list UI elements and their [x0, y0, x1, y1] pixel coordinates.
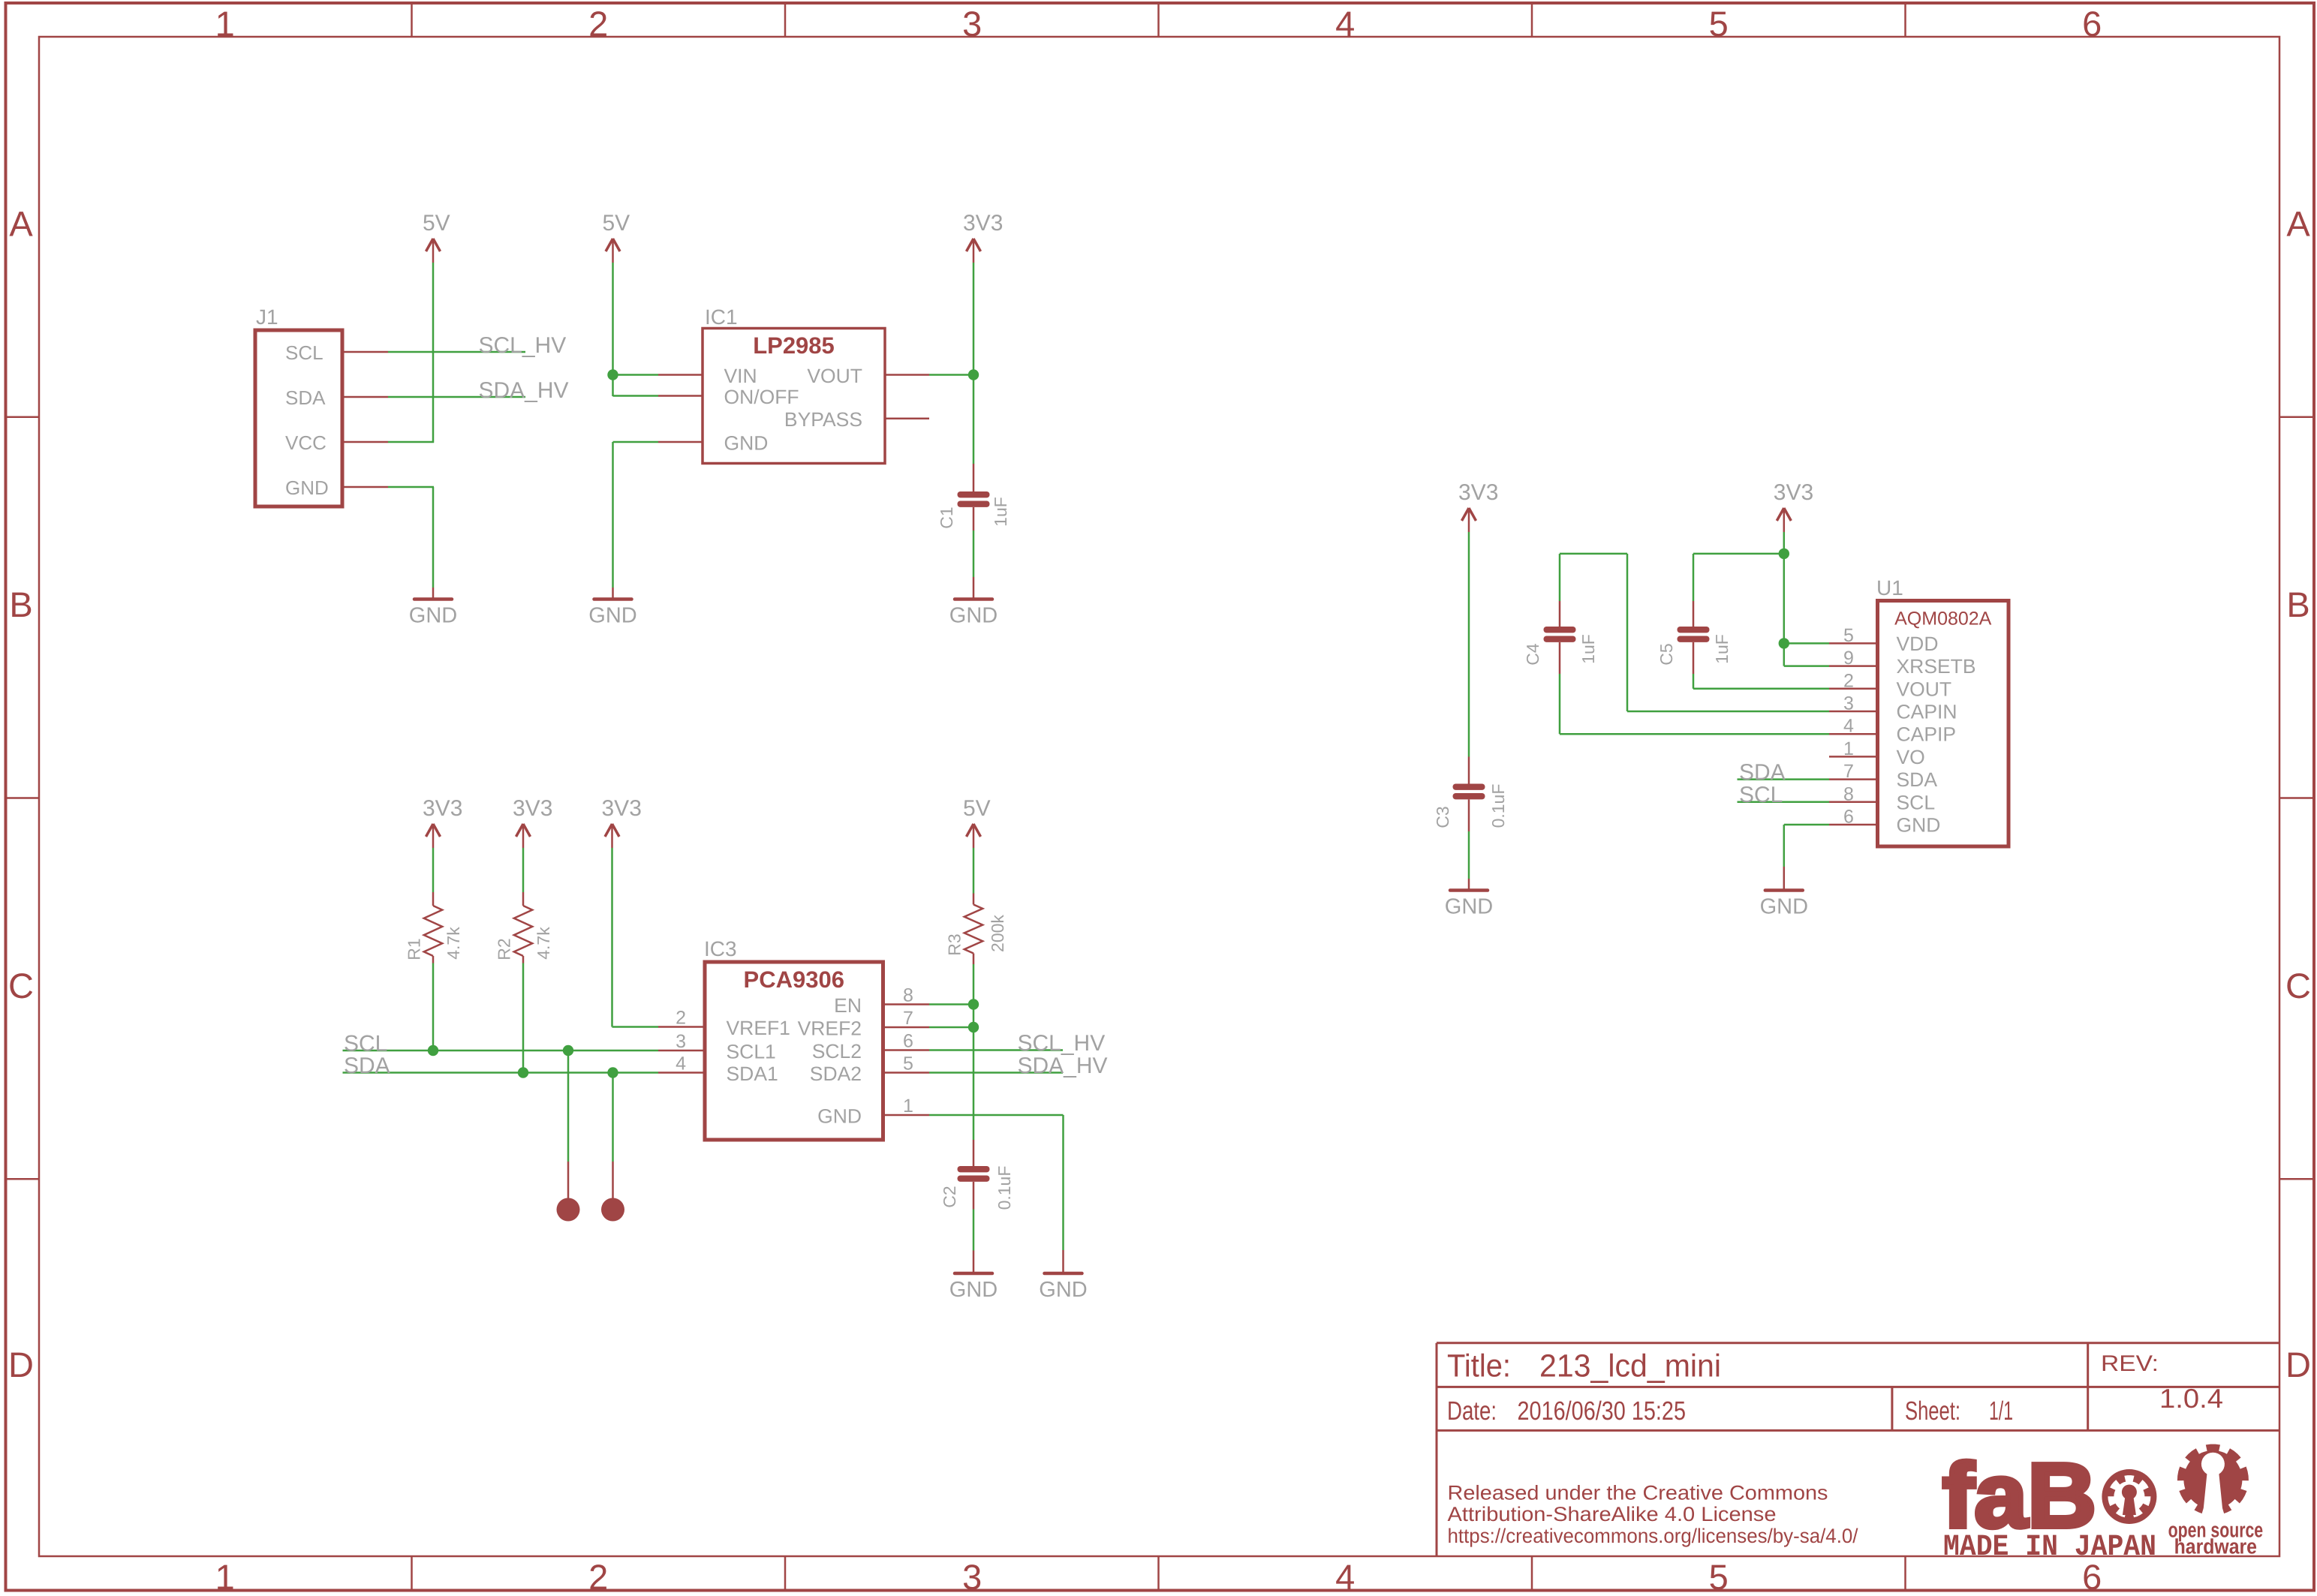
svg-text:GND: GND: [949, 604, 998, 628]
svg-text:3V3: 3V3: [963, 211, 1003, 236]
svg-text:hardware: hardware: [2174, 1535, 2257, 1558]
svg-text:U1: U1: [1876, 576, 1903, 600]
svg-text:4: 4: [1843, 716, 1854, 737]
svg-text:GND: GND: [285, 476, 329, 499]
svg-text:3: 3: [962, 4, 982, 44]
svg-text:C: C: [8, 966, 34, 1005]
svg-text:3: 3: [676, 1031, 686, 1052]
svg-text:C2: C2: [940, 1186, 959, 1207]
svg-text:Released under the Creative Co: Released under the Creative Commons: [1448, 1482, 1828, 1504]
svg-text:3: 3: [1843, 693, 1854, 714]
svg-text:SDA: SDA: [1739, 760, 1786, 785]
svg-text:VOUT: VOUT: [807, 365, 862, 387]
svg-text:SCL: SCL: [285, 341, 323, 364]
svg-text:XRSETB: XRSETB: [1897, 655, 1976, 678]
svg-text:5: 5: [903, 1053, 913, 1075]
svg-text:PCA9306: PCA9306: [744, 966, 844, 993]
svg-text:SCL2: SCL2: [812, 1040, 862, 1062]
svg-text:Title:: Title:: [1447, 1349, 1511, 1384]
svg-text:REV:: REV:: [2101, 1351, 2159, 1376]
svg-text:D: D: [8, 1345, 34, 1384]
svg-text:R2: R2: [495, 938, 514, 960]
svg-text:SCL_HV: SCL_HV: [479, 333, 567, 358]
svg-text:SCL_HV: SCL_HV: [1018, 1031, 1106, 1056]
svg-text:9: 9: [1843, 648, 1854, 669]
svg-text:200k: 200k: [988, 915, 1007, 952]
svg-text:VO: VO: [1897, 746, 1925, 768]
svg-text:3V3: 3V3: [1458, 480, 1498, 505]
svg-text:6: 6: [903, 1031, 913, 1052]
svg-text:1.0.4: 1.0.4: [2159, 1383, 2223, 1414]
svg-text:3V3: 3V3: [423, 796, 462, 821]
svg-text:B: B: [2286, 585, 2309, 624]
svg-text:3V3: 3V3: [1774, 480, 1813, 505]
svg-text:D: D: [2285, 1345, 2311, 1384]
svg-text:4.7k: 4.7k: [444, 927, 463, 960]
svg-text:Attribution-ShareAlike 4.0 Lic: Attribution-ShareAlike 4.0 License: [1448, 1503, 1777, 1525]
svg-text:0.1uF: 0.1uF: [995, 1166, 1014, 1210]
svg-text:R1: R1: [405, 938, 424, 960]
svg-text:3V3: 3V3: [513, 796, 552, 821]
svg-text:C: C: [2285, 966, 2311, 1005]
svg-text:CAPIN: CAPIN: [1897, 701, 1957, 723]
svg-text:VREF1: VREF1: [727, 1017, 790, 1039]
svg-text:ON/OFF: ON/OFF: [724, 386, 799, 408]
svg-text:8: 8: [1843, 783, 1854, 804]
svg-text:MADE IN JAPAN: MADE IN JAPAN: [1943, 1531, 2156, 1564]
svg-text:7: 7: [903, 1008, 913, 1029]
svg-text:2: 2: [1843, 670, 1854, 691]
svg-text:4.7k: 4.7k: [534, 927, 553, 960]
svg-text:C5: C5: [1657, 643, 1676, 665]
svg-text:AQM0802A: AQM0802A: [1894, 609, 1992, 630]
svg-text:5: 5: [1843, 625, 1854, 646]
svg-text:GND: GND: [409, 604, 457, 628]
svg-text:A: A: [2286, 203, 2310, 243]
svg-text:EN: EN: [834, 994, 862, 1017]
svg-text:SDA: SDA: [1897, 768, 1938, 791]
svg-text:GND: GND: [724, 432, 769, 455]
svg-text:R3: R3: [945, 933, 964, 955]
svg-text:1: 1: [903, 1096, 913, 1117]
svg-text:BYPASS: BYPASS: [784, 408, 862, 431]
svg-text:5: 5: [1709, 1557, 1729, 1596]
svg-text:VCC: VCC: [285, 431, 326, 454]
svg-text:1: 1: [215, 4, 235, 44]
svg-text:1/1: 1/1: [1989, 1396, 2013, 1426]
svg-text:4: 4: [676, 1053, 686, 1075]
svg-text:Sheet:: Sheet:: [1905, 1396, 1960, 1426]
svg-text:6: 6: [2082, 4, 2102, 44]
svg-text:SDA2: SDA2: [810, 1062, 862, 1085]
svg-text:VOUT: VOUT: [1897, 678, 1952, 700]
svg-text:GND: GND: [817, 1105, 862, 1128]
svg-text:2016/06/30 15:25: 2016/06/30 15:25: [1518, 1396, 1687, 1426]
svg-text:VREF2: VREF2: [798, 1017, 862, 1040]
svg-text:J1: J1: [256, 305, 278, 329]
svg-text:GND: GND: [1897, 814, 1941, 837]
svg-text:C3: C3: [1433, 806, 1452, 828]
svg-text:1uF: 1uF: [1578, 634, 1598, 664]
svg-text:VDD: VDD: [1897, 633, 1939, 655]
svg-text:SDA1: SDA1: [727, 1062, 778, 1085]
svg-text:GND: GND: [949, 1278, 998, 1302]
svg-text:VIN: VIN: [724, 365, 757, 387]
svg-text:5V: 5V: [603, 211, 630, 236]
svg-text:6: 6: [1843, 807, 1854, 828]
svg-text:B: B: [9, 585, 32, 624]
svg-text:1: 1: [1843, 738, 1854, 759]
svg-text:2: 2: [588, 4, 608, 44]
svg-text:7: 7: [1843, 761, 1854, 782]
svg-text:213_lcd_mini: 213_lcd_mini: [1539, 1349, 1721, 1384]
svg-text:SDA_HV: SDA_HV: [479, 378, 569, 403]
svg-text:4: 4: [1335, 4, 1355, 44]
svg-text:3: 3: [962, 1557, 982, 1596]
svg-text:1uF: 1uF: [991, 497, 1010, 527]
svg-text:SDA: SDA: [344, 1053, 390, 1078]
svg-text:C1: C1: [937, 506, 956, 528]
svg-text:SCL1: SCL1: [727, 1041, 776, 1063]
svg-text:5: 5: [1709, 4, 1729, 44]
svg-text:1uF: 1uF: [1712, 634, 1732, 664]
svg-text:https://creativecommons.org/li: https://creativecommons.org/licenses/by-…: [1448, 1525, 1858, 1547]
svg-text:A: A: [9, 203, 33, 243]
svg-text:SCL: SCL: [1897, 791, 1936, 813]
svg-text:LP2985: LP2985: [753, 332, 835, 359]
svg-text:SDA_HV: SDA_HV: [1018, 1053, 1108, 1078]
svg-text:4: 4: [1335, 1557, 1355, 1596]
svg-text:1: 1: [215, 1557, 235, 1596]
svg-text:8: 8: [903, 985, 913, 1006]
svg-text:CAPIP: CAPIP: [1897, 723, 1957, 746]
svg-text:SCL: SCL: [1739, 783, 1783, 807]
svg-text:5V: 5V: [963, 796, 991, 821]
svg-text:2: 2: [676, 1008, 686, 1029]
svg-text:GND: GND: [588, 604, 636, 628]
svg-text:SDA: SDA: [285, 386, 326, 409]
svg-text:GND: GND: [1039, 1278, 1087, 1302]
svg-text:5V: 5V: [423, 211, 450, 236]
svg-text:GND: GND: [1445, 895, 1493, 919]
svg-text:0.1uF: 0.1uF: [1488, 784, 1508, 828]
svg-text:3V3: 3V3: [602, 796, 642, 821]
svg-text:Date:: Date:: [1447, 1396, 1497, 1426]
svg-text:IC1: IC1: [705, 305, 738, 329]
svg-text:2: 2: [588, 1557, 608, 1596]
svg-text:SCL: SCL: [344, 1032, 387, 1056]
svg-text:GND: GND: [1760, 895, 1808, 919]
svg-text:C4: C4: [1523, 643, 1542, 666]
svg-text:IC3: IC3: [704, 937, 737, 960]
